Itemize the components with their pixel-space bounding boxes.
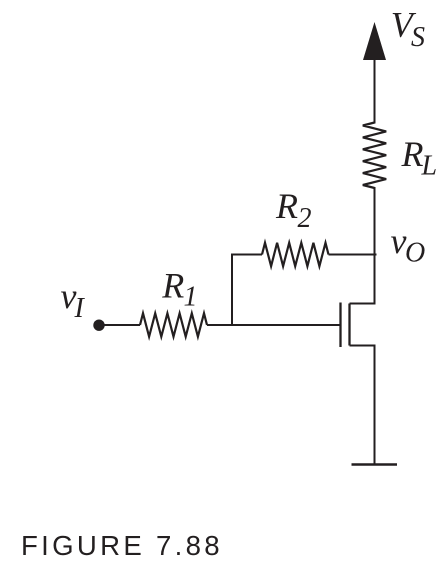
wire R1 to gate [207, 324, 341, 326]
input terminal dot [93, 320, 104, 331]
label RL [401, 134, 438, 182]
transistor Q1 gate bar [339, 303, 341, 348]
supply arrow VS [363, 22, 386, 60]
svg-text:O: O [405, 238, 425, 269]
transistor Q1 channel bar [348, 304, 350, 346]
svg-text:FIGURE 7.88: FIGURE 7.88 [21, 530, 223, 561]
svg-text:R: R [161, 266, 184, 306]
transistor Q1 source lead [350, 346, 375, 351]
label vI [61, 276, 86, 324]
svg-text:L: L [421, 151, 438, 182]
svg-text:I: I [74, 293, 86, 324]
svg-text:R: R [275, 186, 298, 226]
resistor R2 [262, 243, 329, 266]
node vO wire from R2 [329, 254, 377, 256]
label R1 [161, 266, 197, 313]
label vO [391, 221, 426, 269]
svg-text:S: S [411, 22, 425, 53]
resistor RL [363, 123, 386, 189]
label R2 [275, 186, 312, 234]
svg-text:2: 2 [298, 203, 312, 234]
svg-text:1: 1 [184, 282, 198, 313]
wire from VS arrow to RL [374, 58, 376, 124]
wire R2 left corner down to gate node [232, 255, 262, 326]
wire source down to ground [374, 346, 376, 465]
label VS [391, 5, 425, 54]
input wire from terminal to R1 [99, 324, 140, 326]
wire from RL to drain (through node vO) [374, 187, 376, 304]
ground [352, 463, 398, 466]
transistor Q1 drain lead [350, 300, 375, 304]
svg-text:R: R [401, 134, 424, 174]
resistor R1 [140, 313, 207, 336]
